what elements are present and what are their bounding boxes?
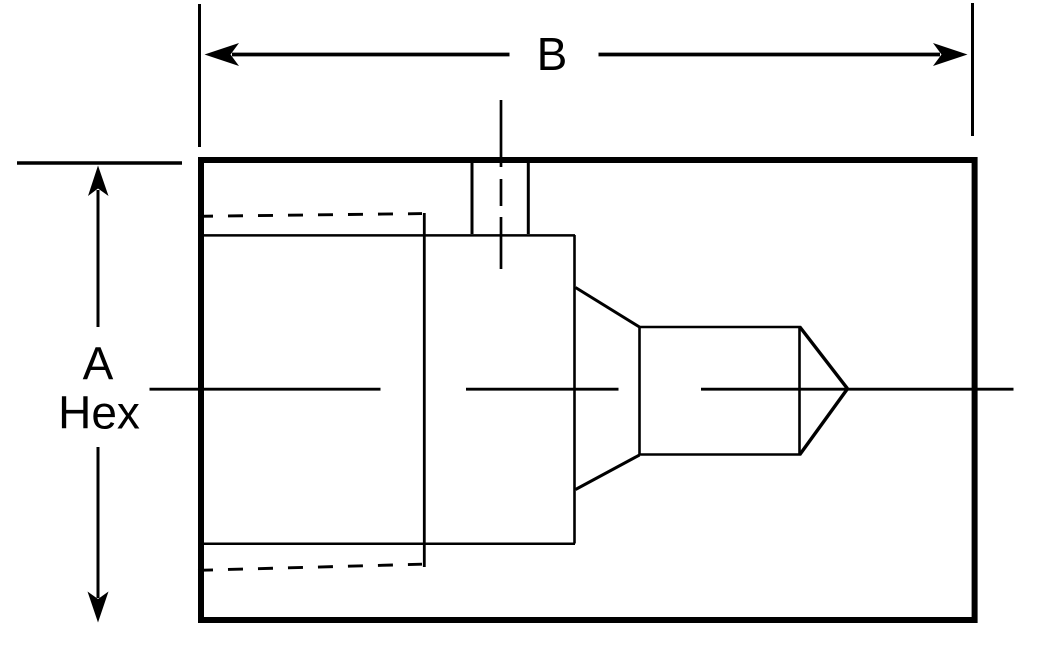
- svg-text:B: B: [537, 28, 568, 80]
- svg-text:Hex: Hex: [58, 387, 140, 439]
- A dimension vertical shaft upper segment: [97, 190, 100, 327]
- B dimension left shaft: [232, 53, 510, 57]
- A dimension vertical shaft lower segment: [97, 447, 100, 598]
- body shoulder right edge: [573, 235, 576, 544]
- hex body top line: [203, 234, 575, 237]
- slot right edge: [527, 161, 530, 234]
- nose cylinder bottom line: [640, 453, 801, 456]
- hex body bottom line: [203, 542, 575, 545]
- cone tip bottom line: [800, 389, 848, 455]
- taper line bottom: [576, 455, 640, 490]
- B dimension right extension line: [971, 3, 974, 136]
- B dimension right arrowhead: [933, 43, 968, 66]
- thread end vertical line: [423, 213, 426, 567]
- B dimension right shaft: [599, 53, 941, 57]
- svg-text:A: A: [83, 338, 114, 390]
- main centerline segment 2: [466, 388, 619, 391]
- nose cylinder left edge: [638, 327, 641, 455]
- main centerline segment 1: [150, 388, 381, 391]
- slot centerline segment 1: [500, 100, 503, 167]
- cone tip top line: [800, 327, 848, 389]
- nose cylinder top line: [640, 326, 801, 329]
- slot centerline segment 3: [500, 217, 503, 269]
- main centerline segment 3: [701, 388, 1014, 391]
- thread dashed line top: [198, 214, 422, 217]
- thread dashed line bottom: [198, 564, 422, 570]
- A dimension top extension line: [17, 161, 182, 164]
- B dimension left extension line: [198, 4, 201, 147]
- slot left edge: [471, 161, 474, 234]
- nose cylinder right edge (cone base): [798, 327, 801, 455]
- A dimension top arrowhead: [88, 166, 109, 197]
- taper line top: [576, 288, 640, 328]
- A dimension bottom arrowhead: [88, 592, 109, 623]
- slot centerline dash: [500, 179, 503, 206]
- B dimension left arrowhead: [205, 43, 240, 66]
- outer body rectangle: [201, 160, 975, 620]
